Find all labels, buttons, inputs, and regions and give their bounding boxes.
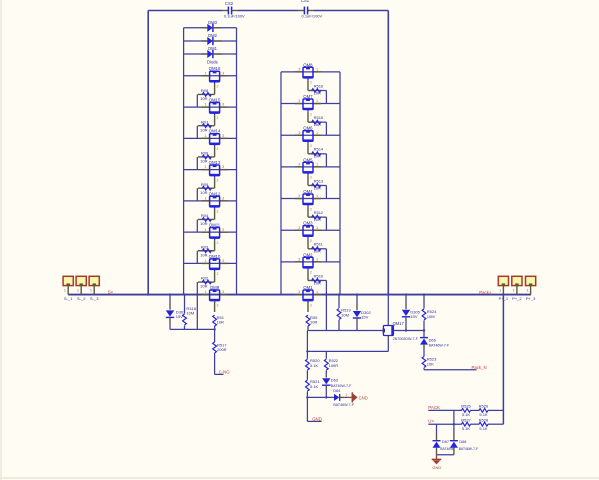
svg-text:S-_2: S-_2: [77, 296, 86, 301]
svg-text:QM8: QM8: [303, 62, 313, 67]
svg-text:15V: 15V: [410, 314, 417, 319]
svg-text:P+_3: P+_3: [526, 296, 536, 301]
svg-text:GND: GND: [432, 465, 441, 470]
svg-text:1: 1: [316, 162, 318, 166]
svg-text:R515: R515: [314, 115, 324, 120]
svg-text:10R: 10R: [314, 217, 321, 222]
svg-text:5.1K: 5.1K: [462, 412, 471, 417]
svg-text:Pack+: Pack+: [479, 290, 492, 295]
svg-text:1: 1: [90, 289, 92, 293]
svg-text:1: 1: [77, 289, 79, 293]
svg-text:QM17: QM17: [393, 321, 405, 326]
svg-text:10M: 10M: [341, 312, 349, 317]
svg-text:1: 1: [345, 393, 347, 397]
svg-text:1: 1: [316, 131, 318, 135]
svg-text:1: 1: [499, 289, 501, 293]
svg-text:10R: 10R: [314, 154, 321, 159]
svg-text:1: 1: [205, 165, 207, 169]
svg-text:1: 1: [205, 290, 207, 294]
svg-text:QM15: QM15: [209, 97, 221, 102]
svg-text:10R: 10R: [200, 284, 207, 289]
svg-text:2: 2: [216, 85, 218, 89]
svg-text:2: 2: [216, 303, 218, 307]
svg-text:D63: D63: [331, 378, 338, 383]
svg-text:R510: R510: [314, 273, 324, 278]
svg-text:10R: 10R: [217, 320, 224, 325]
svg-text:2: 2: [216, 178, 218, 182]
svg-text:2: 2: [310, 271, 312, 275]
svg-text:100R: 100R: [329, 363, 339, 368]
svg-text:1: 1: [205, 228, 207, 232]
svg-text:2: 2: [216, 116, 218, 120]
svg-text:R511: R511: [314, 242, 324, 247]
svg-text:U>: U>: [428, 419, 434, 424]
svg-text:1: 1: [316, 68, 318, 72]
svg-text:D66: D66: [429, 338, 436, 343]
svg-text:QM7: QM7: [303, 94, 313, 99]
svg-text:10R: 10R: [200, 252, 207, 257]
svg-text:2: 2: [310, 144, 312, 148]
svg-text:2N7002DW-7-F: 2N7002DW-7-F: [393, 337, 419, 341]
svg-text:S-_1: S-_1: [64, 296, 73, 301]
svg-text:DM3: DM3: [208, 20, 218, 25]
svg-text:1: 1: [205, 259, 207, 263]
svg-text:QM16: QM16: [209, 66, 221, 71]
svg-text:D64: D64: [333, 388, 341, 393]
svg-text:PACK: PACK: [428, 405, 440, 410]
svg-text:1: 1: [64, 289, 66, 293]
svg-text:3: 3: [298, 131, 300, 135]
svg-text:GND: GND: [312, 416, 322, 421]
svg-text:1: 1: [526, 289, 528, 293]
svg-text:2: 2: [310, 112, 312, 116]
svg-text:2: 2: [310, 176, 312, 180]
svg-text:R525: R525: [461, 404, 471, 409]
svg-text:QM11: QM11: [209, 223, 221, 228]
svg-text:2: 2: [310, 207, 312, 211]
svg-text:C-NG: C-NG: [219, 369, 231, 374]
svg-text:3: 3: [222, 134, 224, 138]
svg-text:D68: D68: [459, 440, 466, 444]
svg-text:1: 1: [513, 289, 515, 293]
svg-text:3: 3: [298, 99, 300, 103]
svg-text:10M: 10M: [186, 311, 194, 316]
svg-text:5.1K: 5.1K: [462, 426, 471, 431]
svg-text:10K: 10K: [427, 361, 434, 366]
svg-text:3: 3: [298, 68, 300, 72]
svg-text:2: 2: [310, 239, 312, 243]
svg-text:BAT46W: BAT46W: [440, 447, 454, 451]
svg-text:10R: 10R: [200, 159, 207, 164]
svg-text:DM1: DM1: [208, 46, 218, 51]
svg-text:R08: R08: [201, 88, 209, 93]
svg-text:3: 3: [222, 196, 224, 200]
svg-text:10R: 10R: [314, 90, 321, 95]
svg-text:2: 2: [216, 241, 218, 245]
svg-text:1: 1: [316, 99, 318, 103]
svg-text:1: 1: [205, 134, 207, 138]
svg-text:3: 3: [222, 165, 224, 169]
svg-text:15V: 15V: [361, 315, 368, 320]
svg-text:DM2: DM2: [208, 33, 218, 38]
svg-text:3: 3: [222, 228, 224, 232]
svg-text:2: 2: [310, 303, 312, 307]
svg-text:R03: R03: [201, 244, 209, 249]
svg-text:5.1K: 5.1K: [479, 426, 488, 431]
svg-text:R528: R528: [479, 417, 489, 422]
svg-text:10R: 10R: [314, 280, 321, 285]
svg-text:GND: GND: [359, 395, 368, 400]
svg-text:R02: R02: [201, 276, 209, 281]
svg-text:10R: 10R: [200, 96, 207, 101]
svg-text:D67: D67: [442, 440, 449, 444]
svg-text:3: 3: [298, 290, 300, 294]
svg-text:3: 3: [222, 259, 224, 263]
svg-text:S-_3: S-_3: [90, 296, 99, 301]
svg-text:0.1uF/100V: 0.1uF/100V: [224, 14, 245, 19]
svg-text:QM13: QM13: [209, 160, 221, 165]
svg-text:200R: 200R: [217, 347, 227, 352]
svg-text:10M: 10M: [427, 314, 435, 319]
svg-text:1: 1: [316, 226, 318, 230]
svg-text:R526: R526: [479, 404, 489, 409]
svg-text:QM12: QM12: [209, 191, 221, 196]
svg-text:R512: R512: [314, 210, 324, 215]
svg-text:BAT46W-7-F: BAT46W-7-F: [333, 403, 354, 407]
svg-text:QM3: QM3: [303, 221, 313, 226]
svg-text:5.1K: 5.1K: [310, 363, 319, 368]
svg-text:R04: R04: [201, 213, 209, 218]
svg-text:R06: R06: [201, 151, 209, 156]
svg-text:R516: R516: [314, 83, 324, 88]
svg-text:2: 2: [216, 147, 218, 151]
svg-text:10R: 10R: [314, 249, 321, 254]
svg-text:10R: 10R: [314, 122, 321, 127]
svg-text:CS1: CS1: [301, 0, 310, 3]
svg-text:QM1: QM1: [303, 285, 313, 290]
svg-text:QM9: QM9: [210, 285, 220, 290]
svg-text:Diode: Diode: [207, 59, 219, 64]
svg-text:P+_2: P+_2: [512, 296, 522, 301]
svg-text:1: 1: [205, 103, 207, 107]
svg-text:1: 1: [316, 290, 318, 294]
svg-text:1: 1: [316, 194, 318, 198]
svg-text:15V: 15V: [176, 314, 183, 319]
svg-text:QM6: QM6: [303, 126, 313, 131]
svg-text:10R: 10R: [314, 185, 321, 190]
svg-text:QM5: QM5: [303, 157, 313, 162]
svg-text:R05: R05: [201, 182, 209, 187]
svg-text:BAT46W-7-F: BAT46W-7-F: [459, 447, 478, 451]
svg-text:3: 3: [298, 162, 300, 166]
svg-text:0.1uF/100V: 0.1uF/100V: [302, 14, 323, 19]
svg-text:QM2: QM2: [303, 252, 313, 257]
svg-text:2: 2: [310, 81, 312, 85]
svg-text:P+_1: P+_1: [499, 296, 509, 301]
svg-text:3: 3: [298, 257, 300, 261]
svg-text:2: 2: [216, 210, 218, 214]
svg-text:10R: 10R: [200, 127, 207, 132]
svg-text:3: 3: [298, 226, 300, 230]
svg-text:S>: S>: [108, 290, 114, 295]
svg-text:1: 1: [205, 196, 207, 200]
svg-text:BAT46W-7-F: BAT46W-7-F: [429, 344, 450, 348]
svg-text:R513: R513: [314, 178, 324, 183]
svg-text:10R: 10R: [310, 320, 317, 325]
svg-text:10R: 10R: [200, 221, 207, 226]
svg-text:QM14: QM14: [209, 129, 221, 134]
svg-text:3: 3: [222, 71, 224, 75]
svg-text:R527: R527: [461, 417, 471, 422]
svg-text:10R: 10R: [200, 190, 207, 195]
svg-text:R07: R07: [201, 119, 209, 124]
svg-text:3: 3: [222, 103, 224, 107]
svg-text:3: 3: [298, 194, 300, 198]
svg-text:1: 1: [205, 71, 207, 75]
svg-text:3: 3: [222, 290, 224, 294]
svg-text:Pack_N: Pack_N: [472, 365, 487, 370]
svg-text:QM10: QM10: [209, 254, 221, 259]
svg-text:2: 2: [216, 272, 218, 276]
svg-text:5.1K: 5.1K: [479, 412, 488, 417]
svg-text:R514: R514: [314, 147, 324, 152]
svg-text:5.1K: 5.1K: [310, 384, 319, 389]
svg-text:QM4: QM4: [303, 189, 313, 194]
svg-text:CS2: CS2: [225, 1, 234, 6]
svg-text:1: 1: [316, 257, 318, 261]
